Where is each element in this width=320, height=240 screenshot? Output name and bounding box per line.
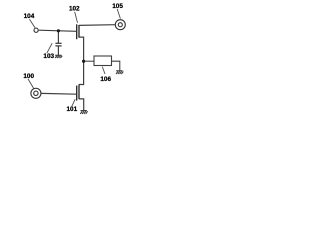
svg-text:103: 103 (43, 53, 54, 60)
svg-text:105: 105 (112, 3, 123, 10)
svg-text:102: 102 (69, 6, 80, 13)
svg-text:106: 106 (100, 76, 111, 83)
svg-text:100: 100 (23, 73, 34, 80)
svg-text:101: 101 (67, 106, 78, 113)
svg-text:104: 104 (24, 13, 35, 20)
